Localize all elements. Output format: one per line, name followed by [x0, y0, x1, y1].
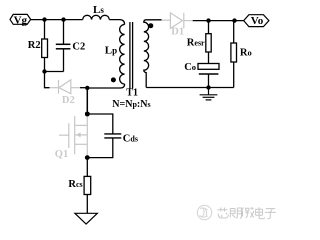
capacitor Co (electrolytic) [198, 64, 219, 88]
node junction dot Resr [206, 18, 210, 22]
transformer T1 primary winding Lp [120, 25, 125, 85]
wire R2-C2 bottom joining [45, 71, 64, 73]
primary polarity dot [111, 77, 116, 82]
wire output top rail [193, 20, 244, 22]
ground (earth symbol) [200, 88, 218, 100]
svg-text:Ro: Ro [240, 48, 252, 59]
svg-text:N=Np:Ns: N=Np:Ns [112, 99, 150, 110]
transformer core lines [129, 22, 131, 89]
svg-text:Co: Co [184, 62, 196, 73]
wire drain vertical [86, 88, 88, 114]
svg-text:Rcs: Rcs [68, 179, 82, 190]
transistor Q1 (grey MOSFET) [59, 114, 87, 158]
resistor Ro [231, 21, 237, 88]
transformer secondary winding [144, 20, 162, 88]
svg-text:Ls: Ls [93, 4, 104, 16]
wire D2 to drain node [80, 87, 87, 89]
wire top-left rail [31, 19, 83, 21]
node junction dot Ro [232, 18, 236, 22]
svg-text:T1: T1 [126, 88, 138, 99]
secondary polarity dot [148, 23, 153, 28]
resistor R2 [42, 20, 48, 72]
wire down to D2 [45, 72, 50, 88]
ground (triangle symbol) [75, 213, 97, 224]
node Vg (input net label) [10, 14, 31, 24]
capacitor C2 [56, 20, 71, 72]
node junction dot ground [206, 85, 210, 89]
node junction dot R2 [42, 17, 46, 21]
wire Ls to transformer primary [109, 20, 124, 25]
resistor Rcs [84, 158, 91, 214]
wire primary bottom [87, 84, 124, 88]
svg-text:Resr: Resr [187, 37, 205, 48]
svg-text:Lp: Lp [105, 44, 117, 56]
node junction dot drain (redraw over gray) [85, 112, 90, 117]
svg-text:R2: R2 [28, 40, 41, 51]
svg-text:C2: C2 [72, 42, 85, 53]
svg-text:D2: D2 [62, 95, 75, 106]
node junction dot snubber bottom [42, 69, 46, 73]
svg-text:D1: D1 [171, 26, 184, 37]
wire bottom output rail [146, 87, 234, 89]
node junction dot drain [85, 112, 90, 117]
inductor Ls [83, 15, 110, 19]
watermark text (stylized CJK strokes) [218, 207, 276, 219]
node Vo (output net label) [244, 15, 269, 27]
svg-text:Vo: Vo [251, 15, 264, 27]
diode D1 (grey, output rectifier) [162, 13, 193, 29]
node junction dot C2 [61, 17, 65, 21]
svg-text:Q1: Q1 [55, 149, 68, 160]
node junction dot drain-top [85, 86, 89, 90]
svg-text:Vg: Vg [14, 14, 28, 26]
diode D2 (grey, clamp) [50, 80, 81, 94]
node junction dot source [85, 155, 90, 160]
resistor Resr [206, 21, 211, 64]
svg-text:Cds: Cds [123, 134, 138, 145]
watermark logo [197, 205, 211, 219]
capacitor Cds [87, 114, 121, 158]
